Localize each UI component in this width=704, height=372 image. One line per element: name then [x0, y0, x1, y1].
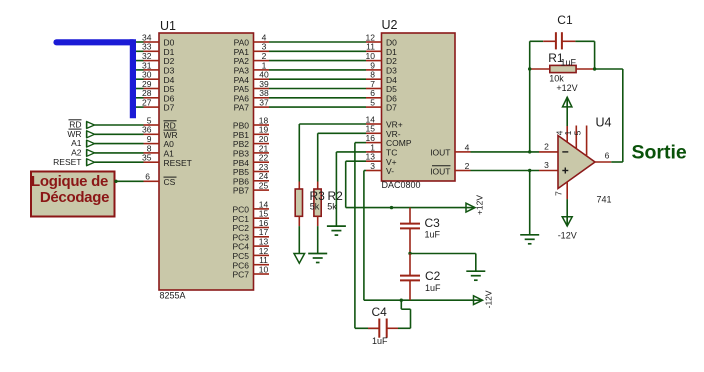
- svg-text:35: 35: [142, 153, 152, 163]
- U1 pin 25 PB7 stub: [254, 189, 270, 191]
- svg-text:PC7: PC7: [232, 270, 249, 280]
- svg-text:1uF: 1uF: [561, 58, 577, 68]
- ground (arrow) below R3: [294, 254, 305, 264]
- svg-text:D7: D7: [164, 103, 175, 113]
- U2 pin 10 D2 stub: [366, 60, 382, 62]
- U2 pin 1 TC stub: [366, 151, 382, 153]
- svg-text:5k: 5k: [310, 202, 320, 212]
- U2 pin 3 V- stub: [366, 170, 382, 172]
- wire TC to ground: [336, 151, 366, 153]
- U1 pin 35 RESET stub: [144, 161, 160, 163]
- U1 pin 3 PA1 stub: [254, 50, 270, 52]
- U2 pin 11 D1 stub: [366, 50, 382, 52]
- junction C3-C2: [408, 252, 411, 255]
- wire bus tap D7: [131, 106, 144, 108]
- U1 pin 40 PA4 stub: [254, 78, 270, 80]
- capacitor C4 lead left: [368, 327, 379, 329]
- U1 pin 14 PC0 stub: [254, 208, 270, 210]
- junction feedback left: [528, 67, 531, 70]
- ground at TC: [327, 226, 346, 235]
- input connector RD: [87, 121, 95, 128]
- U1 pin 4 PA0 stub: [254, 41, 270, 43]
- svg-text:IOUT: IOUT: [430, 148, 450, 158]
- wire junction to ground: [410, 253, 476, 255]
- U2 pin 5 D7 stub: [366, 106, 382, 108]
- svg-text:5: 5: [572, 130, 582, 135]
- U1 pin 28 D6 stub: [144, 97, 160, 99]
- wire RD to U1: [95, 124, 144, 126]
- U1 pin 6 CS stub: [144, 180, 160, 182]
- wire PA6 to U2 D6: [269, 97, 366, 99]
- svg-text:2: 2: [544, 142, 549, 152]
- op-amp U4 741 body: [558, 136, 595, 189]
- input connector A1: [87, 140, 95, 147]
- svg-text:8255A: 8255A: [160, 291, 186, 301]
- svg-text:C1: C1: [557, 13, 573, 27]
- U2 pin 16 COMP stub: [366, 142, 382, 144]
- U1 pin 34 D0 stub: [144, 41, 160, 43]
- op-amp minus sign: [562, 151, 568, 153]
- ground between C3 C2: [466, 271, 485, 280]
- op-amp plus sign: [562, 170, 568, 172]
- U1 pin 13 PC4 stub: [254, 245, 270, 247]
- svg-text:-12V: -12V: [558, 231, 577, 241]
- junction on +12V rail: [390, 206, 393, 209]
- U2 pin 4 IOUT stub: [455, 151, 471, 153]
- U1 pin 38 PA6 stub: [254, 97, 270, 99]
- wire PA3 to U2 D3: [269, 69, 366, 71]
- svg-text:U1: U1: [160, 19, 176, 33]
- input connector WR: [87, 131, 95, 138]
- wire A1 to U1: [95, 143, 144, 145]
- wire C1 right branch down: [594, 41, 596, 69]
- bus wire (blue): [57, 39, 133, 45]
- capacitor C4 plates: [378, 319, 380, 338]
- U2 pin 8 D4 stub: [366, 78, 382, 80]
- wire feedback left down to pin2: [529, 69, 531, 152]
- capacitor C4 lead right: [387, 327, 398, 329]
- svg-text:-12V: -12V: [484, 290, 494, 308]
- svg-text:4: 4: [465, 142, 470, 152]
- svg-text:+12V: +12V: [475, 195, 485, 215]
- U1 pin 29 D5 stub: [144, 88, 160, 90]
- svg-text:U2: U2: [382, 18, 398, 32]
- wire PA4 to U2 D4: [269, 78, 366, 80]
- op-amp pin 1 stub: [575, 126, 577, 149]
- junction C4 on -12V rail: [400, 299, 403, 302]
- junction ground to pin3: [528, 169, 531, 172]
- resistor R2 lead top: [317, 182, 319, 190]
- U1 pin 17 PC3 stub: [254, 236, 270, 238]
- U1 pin 10 PC7 stub: [254, 273, 270, 275]
- svg-text:CS: CS: [164, 177, 176, 187]
- U1 pin 18 PB0 stub: [254, 124, 270, 126]
- resistor R1 lead right: [576, 68, 595, 70]
- U1 pin 15 PC1 stub: [254, 217, 270, 219]
- U2 pin 2 IOUT- stub: [455, 170, 471, 172]
- ground below R2: [308, 254, 327, 263]
- svg-text:C3: C3: [425, 216, 441, 230]
- U1 pin 37 PA7 stub: [254, 106, 270, 108]
- IC U2 DAC0800 body: [382, 33, 456, 181]
- wire pin3 node to ground: [529, 171, 531, 235]
- svg-text:1uF: 1uF: [425, 230, 441, 240]
- svg-text:3: 3: [370, 161, 375, 171]
- wire A2 to U1: [95, 152, 144, 154]
- wire C1 left branch down: [529, 41, 531, 69]
- wire bus tap D1: [131, 50, 144, 52]
- wire PA7 to U2 D7: [269, 106, 366, 108]
- capacitor C3 lead bottom: [409, 228, 411, 253]
- svg-text:D7: D7: [386, 103, 397, 113]
- input connector A2: [87, 149, 95, 156]
- wire bus tap D5: [131, 88, 144, 90]
- svg-text:10: 10: [259, 264, 269, 274]
- capacitor C2 lead bottom: [409, 280, 411, 300]
- wire PA1 to U2 D1: [269, 50, 366, 52]
- svg-text:1uF: 1uF: [425, 283, 441, 293]
- svg-text:6: 6: [605, 151, 610, 161]
- op-amp pin 7 stub: [566, 182, 568, 199]
- svg-text:C2: C2: [425, 269, 441, 283]
- U1 pin 36 WR stub: [144, 133, 160, 135]
- capacitor C3 lead top: [409, 208, 411, 223]
- U1 pin 19 PB1 stub: [254, 133, 270, 135]
- svg-text:25: 25: [259, 181, 269, 191]
- wire R2 to ground: [317, 226, 319, 253]
- U1 pin 23 PB5 stub: [254, 171, 270, 173]
- resistor R2 lead bottom: [317, 216, 319, 226]
- wire bus tap D3: [131, 69, 144, 71]
- U1 pin 16 PC2 stub: [254, 227, 270, 229]
- svg-text:Décodage: Décodage: [40, 189, 109, 206]
- resistor R3 lead top: [298, 182, 300, 190]
- wire R3 to ground: [298, 226, 300, 253]
- svg-text:RESET: RESET: [53, 157, 81, 167]
- U1 pin 11 PC6 stub: [254, 264, 270, 266]
- capacitor C2 lead top: [409, 254, 411, 276]
- op-amp U4 pin 2 stub: [539, 151, 558, 153]
- svg-text:2: 2: [465, 161, 470, 171]
- wire feedback top right: [575, 40, 594, 42]
- U1 pin 2 PA2 stub: [254, 60, 270, 62]
- U2 pin 14 VR+ stub: [366, 123, 382, 125]
- ground below op-amp: [520, 235, 539, 244]
- wire COMP down to C4: [355, 142, 366, 144]
- wire feedback top left: [530, 40, 544, 42]
- U1 pin 22 PB4 stub: [254, 161, 270, 163]
- svg-text:PA7: PA7: [234, 103, 250, 113]
- capacitor C1 plates: [555, 32, 557, 49]
- resistor R2 body: [314, 189, 321, 216]
- capacitor C2 plates: [400, 275, 420, 277]
- wire V- to -12V rail: [364, 170, 366, 172]
- capacitor C1 lead left: [543, 40, 556, 42]
- block Logique de Decodage: [31, 172, 115, 217]
- capacitor C3 plates: [400, 223, 420, 225]
- U2 pin 13 V+ stub: [366, 160, 382, 162]
- wire PA2 to U2 D2: [269, 60, 366, 62]
- U1 pin 24 PB6 stub: [254, 180, 270, 182]
- power +12V arrow (DAC): [466, 203, 475, 212]
- svg-text:PB7: PB7: [233, 186, 249, 196]
- junction feedback right: [593, 67, 596, 70]
- svg-text:741: 741: [597, 195, 612, 205]
- resistor R1 body: [550, 65, 576, 72]
- U1 pin 1 PA3 stub: [254, 69, 270, 71]
- wire WR to U1: [95, 133, 144, 135]
- capacitor C1 lead right: [562, 40, 576, 42]
- op-amp pin 6 stub: [595, 161, 611, 163]
- U1 pin 20 PB2 stub: [254, 143, 270, 145]
- IC U1 8255A body: [159, 33, 254, 290]
- U1 pin 30 D4 stub: [144, 78, 160, 80]
- op-amp pin 4 stub: [566, 126, 568, 142]
- wire PA5 to U2 D5: [269, 88, 366, 90]
- wire pin7 to -12V: [566, 199, 568, 226]
- power +12V arrow (op-amp): [563, 97, 572, 107]
- wire CS from decode box: [116, 180, 144, 182]
- resistor R1 lead left: [530, 68, 550, 70]
- U2 pin 6 D6 stub: [366, 97, 382, 99]
- wire RESET to U1: [95, 161, 144, 163]
- wire output: [611, 161, 623, 163]
- wire IOUT to op-amp inverting input: [471, 151, 540, 153]
- svg-text:6: 6: [145, 172, 150, 182]
- svg-text:37: 37: [259, 98, 269, 108]
- svg-text:IOUT: IOUT: [430, 166, 450, 176]
- svg-text:27: 27: [142, 98, 152, 108]
- U1 pin 32 D2 stub: [144, 60, 160, 62]
- U2 pin 9 D3 stub: [366, 69, 382, 71]
- U2 pin 7 D5 stub: [366, 88, 382, 90]
- resistor R3 lead bottom: [298, 216, 300, 226]
- resistor R3 body: [295, 189, 302, 216]
- U1 pin 31 D3 stub: [144, 69, 160, 71]
- wire feedback right to output node: [595, 68, 623, 70]
- wire bus tap D0: [131, 41, 144, 43]
- wire VR+ to R3: [299, 123, 366, 125]
- power -12V arrow (op-amp): [562, 217, 572, 226]
- U2 pin 12 D0 stub: [366, 41, 382, 43]
- svg-text:RESET: RESET: [164, 158, 192, 168]
- wire bus tap D4: [131, 78, 144, 80]
- svg-text:5: 5: [370, 98, 375, 108]
- junction decode box output: [114, 180, 117, 183]
- wire C4 to -12V rail: [410, 309, 412, 328]
- U1 pin 9 A0 stub: [144, 143, 160, 145]
- svg-text:DAC0800: DAC0800: [382, 180, 421, 190]
- U1 pin 12 PC5 stub: [254, 254, 270, 256]
- wire bus tap D2: [131, 60, 144, 62]
- wire output node up: [622, 69, 624, 162]
- svg-text:Sortie: Sortie: [632, 142, 687, 164]
- svg-text:7: 7: [553, 191, 563, 196]
- svg-text:3: 3: [544, 160, 549, 170]
- svg-text:U4: U4: [596, 116, 612, 130]
- U2 pin 15 VR- stub: [366, 132, 382, 134]
- U1 pin 8 A1 stub: [144, 152, 160, 154]
- input connector RESET: [87, 159, 95, 166]
- U1 pin 39 PA5 stub: [254, 88, 270, 90]
- power -12V arrow (DAC): [474, 296, 483, 305]
- wire pin4 to +12V: [566, 97, 568, 126]
- op-amp U4 pin 3 stub: [539, 170, 558, 172]
- U1 pin 27 D7 stub: [144, 106, 160, 108]
- U1 pin 21 PB3 stub: [254, 152, 270, 154]
- U1 pin 33 D1 stub: [144, 50, 160, 52]
- svg-text:1uF: 1uF: [372, 336, 388, 346]
- wire IOUT- to op-amp non-inverting input: [471, 170, 540, 172]
- wire V+ to +12V rail: [346, 160, 366, 162]
- wire VR- to R2: [318, 132, 366, 134]
- wire PA0 to U2 D0: [269, 41, 366, 43]
- svg-text:10k: 10k: [549, 74, 564, 84]
- junction feedback to pin2: [528, 150, 531, 153]
- svg-text:V-: V-: [386, 166, 394, 176]
- svg-text:Logique de: Logique de: [31, 173, 108, 190]
- U1 pin 5 RD stub: [144, 124, 160, 126]
- op-amp pin 5 stub: [586, 126, 588, 157]
- svg-text:+12V: +12V: [556, 83, 577, 93]
- svg-text:C4: C4: [372, 305, 388, 319]
- wire bus tap D6: [131, 97, 144, 99]
